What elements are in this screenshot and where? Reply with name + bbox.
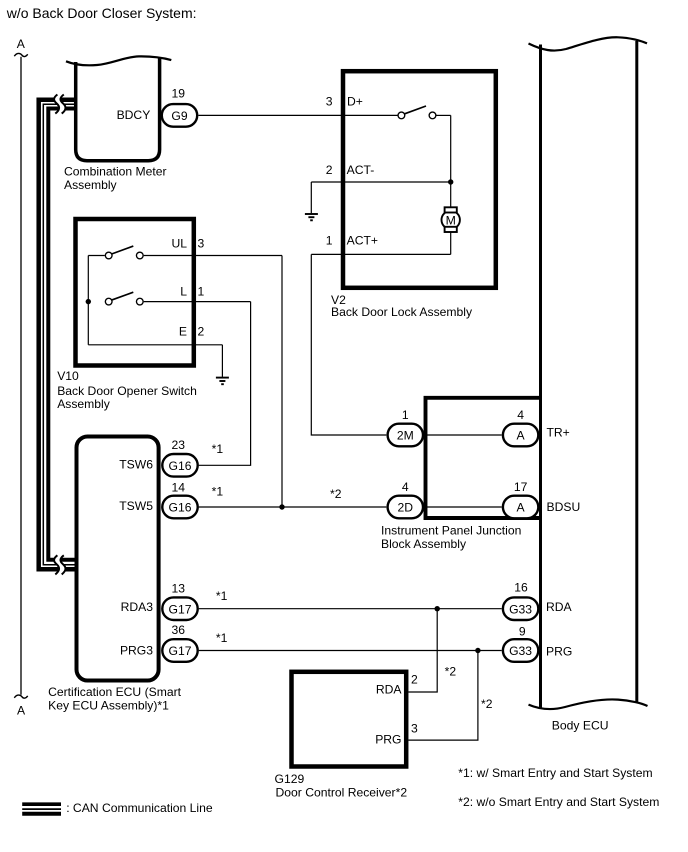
svg-text:G9: G9 xyxy=(171,109,187,123)
svg-text:RDA: RDA xyxy=(546,600,573,614)
svg-text:RDA3: RDA3 xyxy=(121,600,154,614)
svg-text:w/o Back Door Closer System:: w/o Back Door Closer System: xyxy=(6,5,197,21)
svg-text:ACT-: ACT- xyxy=(347,163,375,177)
svg-text:3: 3 xyxy=(326,95,333,109)
svg-text:BDCY: BDCY xyxy=(117,108,151,122)
svg-text:*2: *2 xyxy=(330,487,342,501)
svg-text:Instrument Panel Junction: Instrument Panel Junction xyxy=(381,524,521,538)
svg-text:Assembly: Assembly xyxy=(57,397,111,411)
svg-text:23: 23 xyxy=(172,438,186,452)
svg-text:*2: w/o Smart Entry and Start: *2: w/o Smart Entry and Start System xyxy=(458,795,659,809)
svg-text:L: L xyxy=(180,285,187,299)
svg-text:2M: 2M xyxy=(397,429,414,443)
svg-text:*1: *1 xyxy=(216,631,228,645)
svg-text:4: 4 xyxy=(402,480,409,494)
svg-text:17: 17 xyxy=(514,480,528,494)
svg-text:D+: D+ xyxy=(347,95,363,109)
svg-text:Back Door Lock Assembly: Back Door Lock Assembly xyxy=(331,305,473,319)
svg-text:Door Control Receiver*2: Door Control Receiver*2 xyxy=(276,786,408,800)
svg-text:1: 1 xyxy=(402,408,409,422)
svg-text:1: 1 xyxy=(326,234,333,248)
svg-text:2D: 2D xyxy=(398,501,414,515)
svg-text:*1: *1 xyxy=(212,485,224,499)
svg-text:Combination Meter: Combination Meter xyxy=(64,165,167,179)
svg-text:2: 2 xyxy=(326,163,333,177)
svg-text:2: 2 xyxy=(198,324,205,338)
svg-text:Back Door Opener Switch: Back Door Opener Switch xyxy=(57,384,197,398)
svg-text:G33: G33 xyxy=(509,644,532,658)
svg-text:36: 36 xyxy=(172,623,186,637)
svg-text:A: A xyxy=(17,37,26,51)
svg-text:G17: G17 xyxy=(169,602,192,616)
svg-text:4: 4 xyxy=(517,408,524,422)
svg-text:Body ECU: Body ECU xyxy=(552,719,609,733)
svg-text:UL: UL xyxy=(171,237,187,251)
svg-text:RDA: RDA xyxy=(376,683,403,697)
svg-text:PRG: PRG xyxy=(375,733,401,747)
svg-text:TSW5: TSW5 xyxy=(119,499,153,513)
svg-text:3: 3 xyxy=(411,722,418,736)
svg-text:*2: *2 xyxy=(445,665,457,679)
svg-text:19: 19 xyxy=(172,87,186,101)
svg-text:9: 9 xyxy=(519,625,526,639)
svg-text:13: 13 xyxy=(172,582,186,596)
svg-text:ACT+: ACT+ xyxy=(347,234,378,248)
svg-text:TR+: TR+ xyxy=(547,426,570,440)
svg-text:E: E xyxy=(179,324,187,338)
svg-text:G33: G33 xyxy=(509,602,532,616)
svg-text:14: 14 xyxy=(172,480,186,494)
svg-text:V10: V10 xyxy=(57,369,79,383)
svg-text:Key ECU Assembly)*1: Key ECU Assembly)*1 xyxy=(48,699,169,713)
svg-text:*2: *2 xyxy=(481,697,493,711)
svg-text:Block Assembly: Block Assembly xyxy=(381,537,467,551)
svg-text:G16: G16 xyxy=(169,459,192,473)
svg-text:PRG: PRG xyxy=(546,644,572,658)
svg-text:: CAN Communication Line: : CAN Communication Line xyxy=(66,801,213,815)
svg-text:G129: G129 xyxy=(275,772,305,786)
svg-text:G16: G16 xyxy=(169,501,192,515)
svg-text:16: 16 xyxy=(514,581,528,595)
svg-text:3: 3 xyxy=(198,237,205,251)
svg-text:A: A xyxy=(517,429,526,443)
svg-text:2: 2 xyxy=(411,673,418,687)
svg-text:G17: G17 xyxy=(169,644,192,658)
svg-text:*1: *1 xyxy=(212,442,224,456)
svg-text:TSW6: TSW6 xyxy=(119,457,153,471)
svg-text:1: 1 xyxy=(198,285,205,299)
svg-text:*1: *1 xyxy=(216,589,228,603)
svg-text:A: A xyxy=(517,501,526,515)
svg-text:Certification ECU (Smart: Certification ECU (Smart xyxy=(48,685,182,699)
svg-text:PRG3: PRG3 xyxy=(120,644,153,658)
svg-text:Assembly: Assembly xyxy=(64,178,118,192)
svg-text:*1: w/ Smart Entry and Start S: *1: w/ Smart Entry and Start System xyxy=(458,766,652,780)
svg-text:BDSU: BDSU xyxy=(547,500,581,514)
svg-text:M: M xyxy=(446,213,456,227)
svg-text:A: A xyxy=(17,703,26,717)
